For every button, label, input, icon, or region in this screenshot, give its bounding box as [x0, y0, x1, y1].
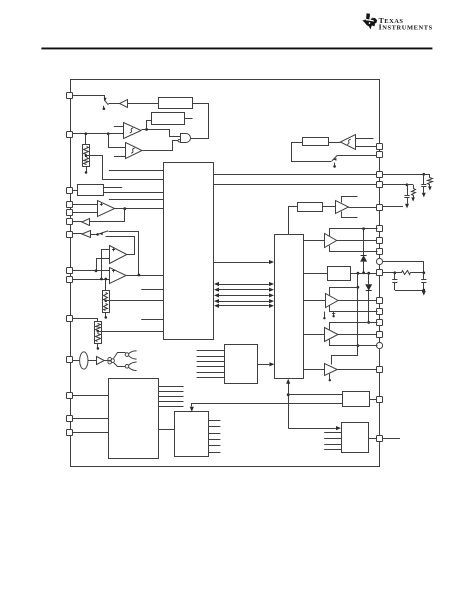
pin P7 (left): [67, 232, 73, 238]
U12 bottom rail to pin Q8: [330, 246, 378, 252]
wire RD1 tap to block K1: [106, 300, 164, 302]
node on P2 net to comparator U3: [107, 132, 110, 135]
box B4: [328, 267, 351, 281]
resistor divider RD1: [105, 279, 107, 291]
node P8 net to U7: [95, 269, 98, 272]
wire pin Q1 to buffer U10: [356, 146, 378, 148]
pin Q15 (right): [376, 342, 382, 348]
pin Q5 (right): [377, 205, 383, 211]
wire pin P11 to oscillator: [73, 360, 80, 362]
K4 output stub 3: [209, 433, 221, 435]
box B6 (power good): [343, 392, 370, 407]
U14 top rail to pin Q13: [330, 323, 378, 330]
box B3 (reference): [78, 185, 104, 196]
pin P2 (left): [67, 132, 73, 138]
comparator U8: [110, 268, 127, 284]
external RC2 top node: [406, 183, 409, 186]
buffer U9: [97, 357, 105, 365]
wire RD0 tap to control block K1: [87, 156, 164, 180]
comparator U2: [124, 123, 142, 139]
B7 input stub 4: [324, 449, 341, 451]
comparator U3: [126, 143, 143, 159]
RC3 bottom wire: [395, 290, 424, 292]
wire K2 to box B4 (timer): [304, 273, 328, 275]
bus arrow 4 between K1 and K2: [219, 301, 269, 303]
U11 top rail: [342, 197, 358, 203]
wire pin P10 to divider RD2: [73, 319, 98, 322]
svg-text:INSTRUMENTS: INSTRUMENTS: [379, 23, 433, 32]
svg-text:TEXAS: TEXAS: [379, 16, 404, 25]
K4 output stub 6: [209, 452, 221, 454]
pin P11 (left): [67, 357, 73, 363]
U13 trim stub 1: [324, 312, 326, 318]
wire pin Q5 external stub: [383, 206, 403, 208]
wire B7 output to pin Q18: [369, 438, 377, 440]
IC boundary box: [71, 80, 380, 467]
reference stub into U3: [114, 156, 125, 158]
resistor divider RD0: [85, 134, 87, 144]
wire K2 to comparator U12: [304, 240, 325, 242]
stub reference into buffer U10: [356, 138, 374, 140]
wire R2 to switch S3: [292, 143, 332, 162]
pin P6 (left): [67, 219, 73, 225]
wire cluster to clock node B: [114, 363, 126, 367]
pin Q9 (right): [376, 258, 382, 264]
B5 input stub 6: [197, 377, 225, 379]
wire U4 output to block K1: [115, 208, 164, 210]
box B1 (one-shot): [159, 98, 193, 109]
clock node B whisker upper: [129, 362, 137, 365]
wire buffer U5 to pin P6: [73, 221, 82, 223]
pin Q8 (right): [377, 249, 383, 255]
bus arrow 2 between K1 and K2: [219, 289, 269, 291]
pin P9 (left): [67, 277, 73, 283]
oscillator crystal ellipse Y1: [80, 352, 88, 369]
wire pin Q18 external stub: [383, 438, 400, 440]
diode D2 (down) with wire: [368, 273, 370, 284]
wire pin P2 net: [73, 133, 124, 135]
RC3 right node: [422, 271, 425, 274]
comparator U15: [325, 364, 338, 376]
U15 bias stub: [329, 374, 331, 380]
capacitor C3: [394, 273, 396, 280]
resistor R3 (box): [298, 203, 323, 212]
resistor R2 (box): [303, 138, 329, 146]
block K3 (fault logic): [109, 379, 159, 459]
resistor R5: [413, 185, 415, 189]
K3 output stub 3: [158, 396, 183, 398]
pin Q12 (right): [377, 309, 383, 315]
block K4 (status register): [175, 412, 209, 457]
wire pin Q10 to external RC3: [383, 272, 395, 274]
wire box B3 output B to block K1: [103, 192, 164, 194]
pin Q4 (right): [377, 182, 383, 188]
box B5 (mux): [225, 345, 258, 384]
pin P10 (left): [67, 316, 73, 322]
buffer U10 (points left): [340, 135, 355, 150]
K3 output stub 2: [158, 391, 183, 393]
bus wire VCC rail to pin Q3: [213, 174, 377, 176]
U14 bottom rail to pin Q15: [330, 340, 378, 346]
block K1 (main control logic): [164, 163, 214, 340]
node common net to U13 top rail: [357, 286, 360, 289]
pin P12 (left): [67, 393, 73, 399]
bus arrow 5 between K1 and K2: [219, 305, 269, 307]
pin Q16 (right): [377, 367, 383, 373]
switch S2: [96, 233, 99, 236]
reference stub into U2: [114, 126, 124, 128]
pin Q2 (right): [377, 152, 383, 158]
wire switch S2 to comparator U8 output node: [109, 232, 139, 275]
wire pin Q9 to external RC3: [383, 262, 424, 273]
node feedback to box B6: [287, 393, 290, 396]
wire U7 - input from pin P8 net: [97, 259, 110, 271]
box B7 (fault latch): [342, 423, 369, 453]
wire node to box B6: [288, 394, 343, 396]
node U4 output: [123, 207, 126, 210]
wire buffer U1 to box B1: [127, 103, 158, 105]
wire node to box B2: [147, 121, 152, 130]
wire pin P14 to block K3: [73, 432, 109, 434]
comparator U13: [326, 294, 339, 308]
node U2 output to box B2: [145, 128, 148, 131]
B7 input stub 2: [324, 438, 341, 440]
wire K1 to K2 enable with arrow: [213, 262, 269, 264]
capacitor C1: [423, 174, 425, 184]
common vertical net wire: [357, 273, 359, 345]
pin P8 (left): [67, 268, 73, 274]
K4 output stub 5: [209, 445, 221, 447]
comparator U7: [110, 246, 127, 264]
pin Q1 (right): [377, 144, 383, 150]
wire U11 output to pin Q5: [349, 207, 378, 209]
block K2 (gate drive logic): [275, 235, 304, 379]
wire block K2 to charge pump input: [289, 207, 298, 235]
wire pin P5 to comparator U4: [73, 212, 98, 214]
wire stub into block K1 (upper): [109, 170, 164, 172]
buffer U1 (points left): [120, 100, 128, 108]
R4 ground arrow: [428, 186, 432, 190]
B5 input stub 2: [197, 356, 225, 358]
wire switch S2 contact to comparator U7 output: [106, 237, 135, 255]
diode D1 (up) with wire: [363, 229, 365, 255]
RD1 bottom terminal node: [105, 313, 107, 317]
RD0 bottom terminal node: [86, 166, 88, 171]
node U8 output / switch S2 net: [138, 274, 141, 277]
clock node A: [125, 353, 129, 357]
wire U4 output to buffer U5: [90, 209, 125, 222]
wire U13 output to pin Q11: [338, 300, 377, 302]
wire U14 output to pin Q14: [338, 334, 377, 336]
clock node A whisker upper: [129, 351, 137, 354]
wire pin P13 to block K3: [73, 418, 109, 420]
node P9 net to U7: [100, 278, 103, 281]
pin Q3 (right): [377, 172, 383, 178]
resistor R6: [395, 272, 402, 274]
clock node A whisker lower: [129, 356, 137, 359]
K3 output stub 4: [158, 401, 183, 403]
wire pin P4 to comparator U4: [73, 204, 98, 206]
wire stub into block K1 at 320: [141, 319, 163, 321]
RC3 left node: [393, 271, 396, 274]
pin Q17 (right): [377, 397, 383, 403]
node D1 to timer net: [362, 271, 365, 274]
external RC1 top node: [422, 173, 425, 176]
pin Q18 (right): [377, 436, 383, 442]
K4 output stub 4: [209, 439, 221, 441]
wire U8 output to block K1: [126, 275, 163, 277]
clock node B whisker lower: [129, 367, 137, 370]
wire pin P8 to comparator U8: [73, 270, 110, 272]
U13 bottom rail to pin Q12: [330, 306, 378, 312]
wire pin P1 to switch S1: [73, 96, 105, 101]
B5 input stub 1: [197, 350, 225, 352]
wire box B6 to block K4 strobe with down arrow: [192, 404, 343, 407]
Texas Instruments logo - state of Texas bug: [362, 13, 377, 29]
K4 output stub 1: [209, 420, 221, 422]
wire U6 input to switch S2: [90, 234, 97, 236]
switch S1: [104, 100, 108, 105]
stub box B3 output A: [103, 187, 122, 189]
RD2 bottom terminal node: [97, 343, 99, 348]
wire RD2 tap to block K1: [98, 331, 164, 333]
wire K2 to comparator U15: [304, 369, 325, 371]
bus arrow 3 between K1 and K2: [219, 295, 269, 297]
wire stub into block K1 (mid): [109, 199, 164, 201]
pin P13 (left): [67, 416, 73, 422]
clock node B: [125, 365, 129, 369]
wire pin P12 to block K3: [73, 395, 109, 397]
clock phase splitter node cluster: [108, 357, 112, 361]
comparator U14: [325, 328, 338, 342]
pin Q11 (right): [377, 298, 383, 304]
wire K2 to comparator U13: [304, 300, 326, 302]
pin Q7 (right): [377, 238, 383, 244]
wire U7 + input from pin P9 net: [102, 250, 110, 280]
resistor divider RD2: [95, 322, 102, 344]
buffer U5 (points left, drives pin P6): [82, 219, 90, 226]
node timer net to common vertical: [357, 272, 360, 275]
RC3 ground node: [422, 289, 425, 292]
switch S3: [332, 155, 337, 161]
wire pin Q3 to external RC1: [383, 174, 424, 176]
B5 input stub 4: [197, 366, 225, 368]
wire cluster to clock node A: [114, 353, 126, 359]
U13 trim stub 2: [333, 312, 335, 316]
pin Q14 (right): [377, 332, 383, 338]
C1 ground arrow: [422, 193, 426, 198]
comparator U12: [325, 234, 337, 248]
B5 input stub 5: [197, 372, 225, 374]
wire U15 output to pin Q16: [337, 369, 377, 371]
wire stub into block K1 at 289: [141, 289, 163, 291]
wire feedback to box B7 with arrow: [288, 428, 336, 430]
K4 output stub 2: [209, 426, 221, 428]
B5 input stub 3: [197, 361, 225, 363]
node D2 to U14 top rail net: [367, 321, 370, 324]
node timer net to diode D2: [367, 272, 370, 275]
buffer U6 (points left, drives pin P7): [82, 231, 91, 238]
B7 input stub 1: [324, 432, 341, 434]
wire pin P3 to box B3: [73, 190, 78, 192]
wire pin Q4 to external RC2: [383, 184, 407, 186]
U15 top rail to common net: [332, 346, 358, 365]
R5 ground arrow: [411, 197, 415, 201]
wire pin P9 to comparator U8: [73, 279, 110, 281]
pin Q6 (right): [377, 226, 383, 232]
U13 top rail to common net: [330, 288, 358, 296]
RC3 ground arrow: [422, 291, 426, 296]
pin P3 (left): [67, 188, 73, 194]
wire P2 net to U3 input: [109, 134, 126, 148]
wire switch S1 to buffer U1: [108, 103, 119, 105]
B7 input stub 3: [324, 444, 341, 446]
K3 output stub 5: [158, 406, 183, 408]
pin P5 (left): [67, 210, 73, 216]
wire B6 output to pin Q17: [370, 399, 377, 401]
wire R3 to amplifier U11: [322, 206, 335, 208]
AND gate G1: [181, 134, 191, 143]
U12 top rail to pin Q6: [330, 229, 378, 237]
wire U10 to resistor R2: [329, 142, 340, 144]
wire buffer U6 to pin P7: [73, 233, 82, 235]
wire block K2 bottom feedback with up arrow: [288, 383, 290, 428]
wire Y1 to buffer U9: [88, 360, 97, 362]
node P9 net to divider RD1: [104, 278, 107, 281]
pin Q10 (right): [377, 270, 383, 276]
node top rail to diode D1: [362, 227, 365, 230]
bus wire VDD rail to pin Q4: [213, 184, 377, 186]
pin P1 (left): [67, 93, 73, 99]
K3 output stub 1: [158, 386, 183, 388]
comparator U4: [98, 201, 115, 217]
wire box B1 feedback from AND gate: [191, 104, 209, 139]
wire switch S3 to pin Q2: [337, 155, 377, 157]
capacitor C2: [407, 185, 409, 195]
U11 bottom rail: [342, 212, 358, 218]
stub box B2 output: [185, 118, 193, 120]
capacitor C4: [423, 273, 425, 280]
pin P14 (left): [67, 430, 73, 436]
C2 ground arrow: [405, 204, 409, 209]
wire U12 output to pin Q7: [337, 240, 377, 242]
wire B4 output to pin Q10: [350, 273, 377, 275]
amplifier U11: [336, 201, 349, 214]
node on P2 net at divider RD0: [84, 132, 87, 135]
wire U2 output to AND gate G1: [142, 130, 181, 137]
wire K2 to comparator U14: [304, 334, 325, 336]
wire B5 output to block K2 with arrow: [258, 364, 270, 366]
box B2 (deglitch): [152, 113, 185, 125]
resistor R4: [429, 174, 431, 178]
pin P4 (left): [67, 202, 73, 208]
header rule: [41, 48, 432, 50]
pin Q13 (right): [377, 320, 383, 326]
bus arrow 1 between K1 and K2: [219, 284, 269, 286]
wire U3 output to AND gate G1: [143, 141, 179, 151]
node common net at U14 bottom rail: [357, 344, 360, 347]
wire K3 to block K4: [158, 429, 175, 431]
